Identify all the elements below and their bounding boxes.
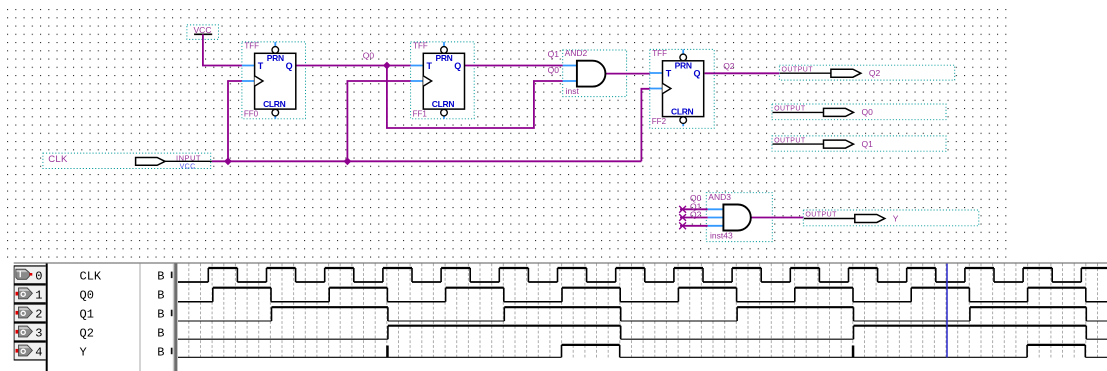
svg-text:Q: Q: [454, 61, 461, 71]
svg-text:inst: inst: [566, 86, 580, 96]
svg-text:CLRN: CLRN: [432, 99, 455, 109]
svg-text:TFF: TFF: [413, 41, 428, 50]
svg-text:TFF: TFF: [652, 49, 667, 58]
svg-text:CLK: CLK: [48, 154, 68, 165]
svg-text:FF0: FF0: [244, 110, 259, 119]
svg-text:T: T: [666, 69, 672, 79]
svg-text:Q: Q: [286, 61, 293, 71]
svg-text:PRN: PRN: [675, 60, 692, 70]
svg-text:INPUT: INPUT: [176, 154, 201, 163]
svg-text:CLRN: CLRN: [671, 106, 694, 116]
svg-text:PRN: PRN: [267, 53, 284, 63]
svg-text:T: T: [427, 61, 433, 71]
svg-text:0: 0: [35, 269, 42, 283]
svg-text:FF2: FF2: [652, 117, 667, 126]
svg-text:Q1: Q1: [548, 49, 560, 59]
svg-text:Q0: Q0: [548, 65, 560, 75]
svg-text:Q0: Q0: [80, 288, 94, 302]
svg-text:FF1: FF1: [413, 110, 428, 119]
svg-text:B: B: [157, 288, 164, 302]
svg-text:Q0: Q0: [862, 107, 874, 117]
svg-text:Q2: Q2: [690, 209, 702, 219]
svg-text:Q2: Q2: [80, 326, 94, 340]
svg-text:1: 1: [35, 288, 42, 302]
svg-text:OUTPUT: OUTPUT: [774, 106, 806, 113]
svg-text:Q: Q: [693, 69, 700, 79]
svg-text:Q2: Q2: [723, 61, 735, 71]
svg-text:TFF: TFF: [244, 41, 259, 50]
svg-text:OUTPUT: OUTPUT: [774, 137, 806, 144]
svg-text:Q1: Q1: [862, 139, 874, 149]
svg-text:B: B: [157, 345, 164, 359]
svg-text:3: 3: [35, 326, 42, 340]
svg-text:AND3: AND3: [708, 192, 731, 202]
svg-text:OUTPUT: OUTPUT: [782, 66, 814, 73]
svg-text:Y: Y: [80, 345, 87, 359]
svg-text:B: B: [157, 326, 164, 340]
svg-text:B: B: [157, 269, 164, 283]
svg-text:AND2: AND2: [565, 48, 588, 58]
svg-text:Q1: Q1: [80, 307, 94, 321]
svg-text:OUTPUT: OUTPUT: [805, 212, 837, 219]
svg-text:T: T: [258, 61, 264, 71]
svg-text:PRN: PRN: [435, 53, 452, 63]
svg-text:B: B: [157, 307, 164, 321]
svg-text:VCC: VCC: [180, 163, 196, 170]
svg-text:Y: Y: [893, 213, 899, 223]
svg-text:Q2: Q2: [869, 68, 881, 78]
svg-text:inst43: inst43: [710, 230, 733, 240]
svg-text:CLK: CLK: [80, 269, 102, 283]
svg-text:CLRN: CLRN: [263, 99, 286, 109]
svg-text:4: 4: [35, 345, 42, 359]
svg-text:Q0: Q0: [363, 50, 375, 60]
svg-text:2: 2: [35, 307, 42, 321]
